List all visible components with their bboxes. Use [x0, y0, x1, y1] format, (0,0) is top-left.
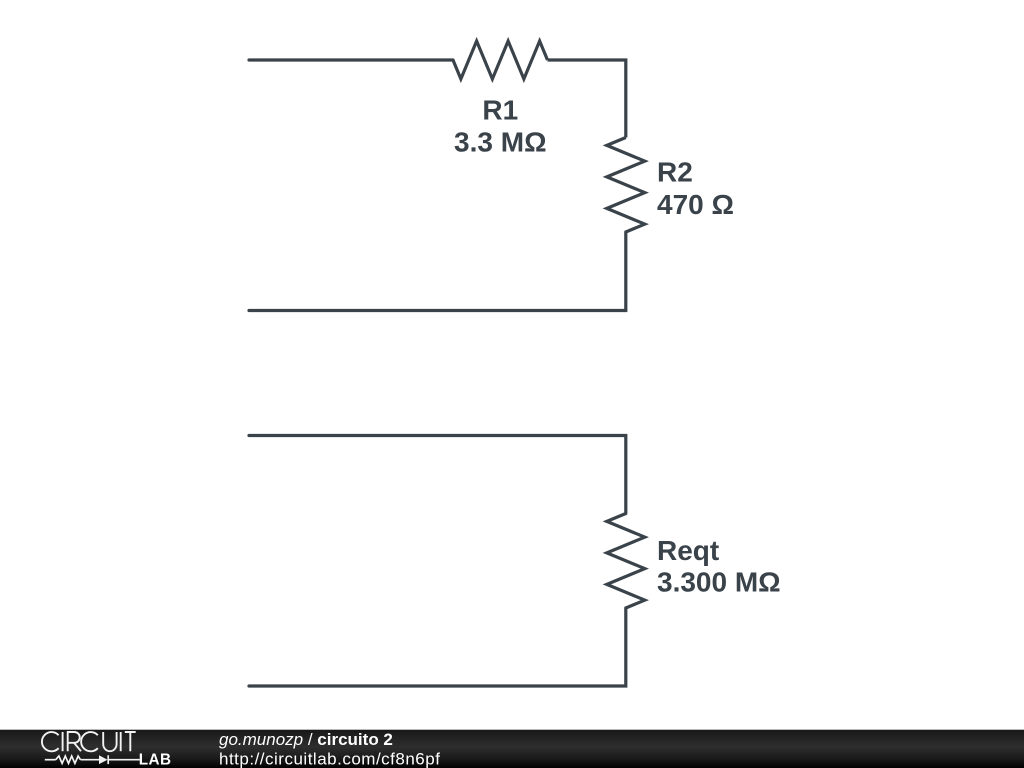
- logo symbol wire middle: [81, 759, 100, 761]
- svg-text:http://circuitlab.com/cf8n6pf: http://circuitlab.com/cf8n6pf: [219, 749, 440, 768]
- logo symbol wire right: [108, 759, 140, 761]
- logo letter I2: [120, 732, 122, 751]
- svg-text:R1: R1: [482, 95, 518, 126]
- resistor R1: [453, 41, 548, 79]
- logo letter U: [103, 732, 116, 751]
- logo symbol diode triangle: [99, 755, 108, 764]
- wire top rail right to corner (circuit 1): [548, 60, 626, 138]
- logo letter C: [42, 732, 59, 751]
- logo symbol wire left: [45, 755, 140, 764]
- svg-text:LAB: LAB: [139, 751, 172, 768]
- resistor Reqt: [607, 514, 645, 609]
- svg-text:470 Ω: 470 Ω: [657, 189, 734, 220]
- svg-text:R2: R2: [657, 157, 693, 188]
- svg-text:3.300 MΩ: 3.300 MΩ: [657, 567, 781, 598]
- logo letter R: [68, 732, 81, 751]
- resistor R2: [607, 138, 645, 233]
- wire right side down and bottom rail (circuit 1): [249, 232, 626, 311]
- logo letter C2: [81, 732, 98, 751]
- logo symbol diode bar: [107, 755, 109, 764]
- svg-text:go.munozp / circuito 2: go.munozp / circuito 2: [219, 730, 393, 749]
- logo letter T: [125, 732, 136, 751]
- svg-text:3.3 MΩ: 3.3 MΩ: [454, 127, 546, 158]
- logo letter I: [62, 732, 64, 751]
- wire right side down and bottom rail (circuit 2): [249, 608, 626, 686]
- logo symbol resistor: [56, 756, 81, 763]
- wire top rail left (circuit 1): [249, 58, 453, 61]
- wire top rail (circuit 2): [249, 436, 626, 514]
- svg-text:Reqt: Reqt: [657, 535, 719, 566]
- CircuitLab logo word CIRCUIT: [42, 732, 136, 751]
